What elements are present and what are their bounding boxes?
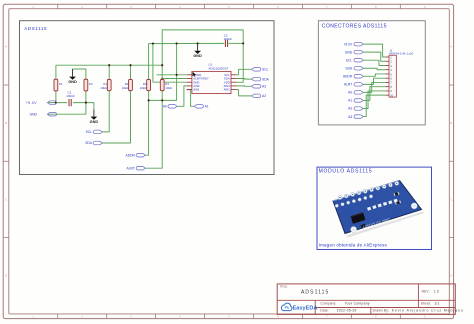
svg-text:ALRT: ALRT xyxy=(127,166,135,170)
svg-text:AIN0: AIN0 xyxy=(193,84,200,88)
svg-text:A1: A1 xyxy=(348,99,352,103)
svg-text:10kΩ: 10kΩ xyxy=(140,86,147,90)
svg-text:ALRT: ALRT xyxy=(344,83,352,87)
svg-text:SDA: SDA xyxy=(345,66,353,70)
svg-text:GND: GND xyxy=(345,50,353,54)
svg-text:AIN1: AIN1 xyxy=(193,88,200,92)
svg-text:10kΩ: 10kΩ xyxy=(122,86,129,90)
svg-text:Drawn By:: Drawn By: xyxy=(373,309,390,313)
svg-text:C: C xyxy=(5,197,7,201)
svg-text:SDA: SDA xyxy=(85,141,93,145)
svg-text:CONECTORES ADS1115: CONECTORES ADS1115 xyxy=(322,23,387,29)
svg-text:SDA: SDA xyxy=(224,77,230,81)
svg-text:A0: A0 xyxy=(163,105,167,109)
svg-text:VDD: VDD xyxy=(224,80,230,84)
svg-text:A: A xyxy=(5,45,7,49)
svg-text:TITLE:: TITLE: xyxy=(280,284,288,288)
svg-text:C: C xyxy=(450,197,452,201)
svg-text:10kΩ: 10kΩ xyxy=(100,86,107,90)
svg-text:ALERT/RDY: ALERT/RDY xyxy=(193,77,209,81)
svg-text:D: D xyxy=(450,274,452,278)
svg-text:Date:: Date: xyxy=(320,309,329,313)
svg-text:B: B xyxy=(450,121,452,125)
svg-text:1.0: 1.0 xyxy=(434,290,439,294)
svg-text:+5.0V: +5.0V xyxy=(343,42,353,46)
svg-text:A: A xyxy=(450,45,452,49)
svg-text:100nF: 100nF xyxy=(224,37,233,41)
svg-text:SCL: SCL xyxy=(262,68,269,72)
svg-text:SCL: SCL xyxy=(86,130,93,134)
svg-text:GND: GND xyxy=(193,54,202,58)
svg-text:D: D xyxy=(5,274,7,278)
svg-text:GND: GND xyxy=(68,80,77,84)
svg-text:A3: A3 xyxy=(348,115,352,119)
svg-text:GND: GND xyxy=(90,120,99,124)
svg-text:Your Company: Your Company xyxy=(345,302,370,306)
svg-text:GND: GND xyxy=(193,80,199,84)
svg-text:P2: P2 xyxy=(89,82,93,86)
svg-text:ADS1115: ADS1115 xyxy=(301,289,329,295)
svg-text:SCL: SCL xyxy=(346,58,353,62)
svg-text:Company:: Company: xyxy=(320,302,336,306)
svg-text:1/1: 1/1 xyxy=(434,302,439,306)
svg-text:AIN3: AIN3 xyxy=(224,84,231,88)
svg-text:AIN2: AIN2 xyxy=(224,88,231,92)
svg-text:U1: U1 xyxy=(209,63,213,67)
svg-text:A1: A1 xyxy=(205,105,209,109)
svg-text:+5.0V: +5.0V xyxy=(26,101,37,105)
svg-text:ADS1115: ADS1115 xyxy=(24,26,47,31)
svg-text:MODULO ADS1115: MODULO ADS1115 xyxy=(319,169,373,175)
svg-text:Kevin Alejandro Cruz Medrano: Kevin Alejandro Cruz Medrano xyxy=(392,309,464,313)
svg-text:P1: P1 xyxy=(59,82,63,86)
svg-text:A2: A2 xyxy=(348,107,352,111)
svg-text:SCL: SCL xyxy=(224,73,230,77)
svg-text:SDA: SDA xyxy=(262,77,270,81)
svg-text:Sheet:: Sheet: xyxy=(421,302,431,306)
svg-text:ADDR: ADDR xyxy=(126,153,136,157)
svg-text:EasyEDA: EasyEDA xyxy=(293,306,318,312)
svg-text:ADDR: ADDR xyxy=(343,75,353,79)
svg-text:GND: GND xyxy=(30,112,38,116)
svg-text:A3: A3 xyxy=(262,85,266,89)
svg-text:ADS1115IDGST: ADS1115IDGST xyxy=(209,66,229,70)
svg-text:HDR-M-2.54_1x10: HDR-M-2.54_1x10 xyxy=(389,52,413,56)
svg-text:2022-05-29: 2022-05-29 xyxy=(337,309,357,313)
svg-text:B: B xyxy=(5,121,7,125)
svg-text:A2: A2 xyxy=(262,94,266,98)
svg-text:REV:: REV: xyxy=(422,290,430,294)
svg-text:100nF: 100nF xyxy=(66,94,75,98)
svg-text:10kΩ: 10kΩ xyxy=(165,86,172,90)
svg-text:Imagen obtenida de AliExpress: Imagen obtenida de AliExpress xyxy=(319,243,388,248)
svg-text:A0: A0 xyxy=(348,91,352,95)
